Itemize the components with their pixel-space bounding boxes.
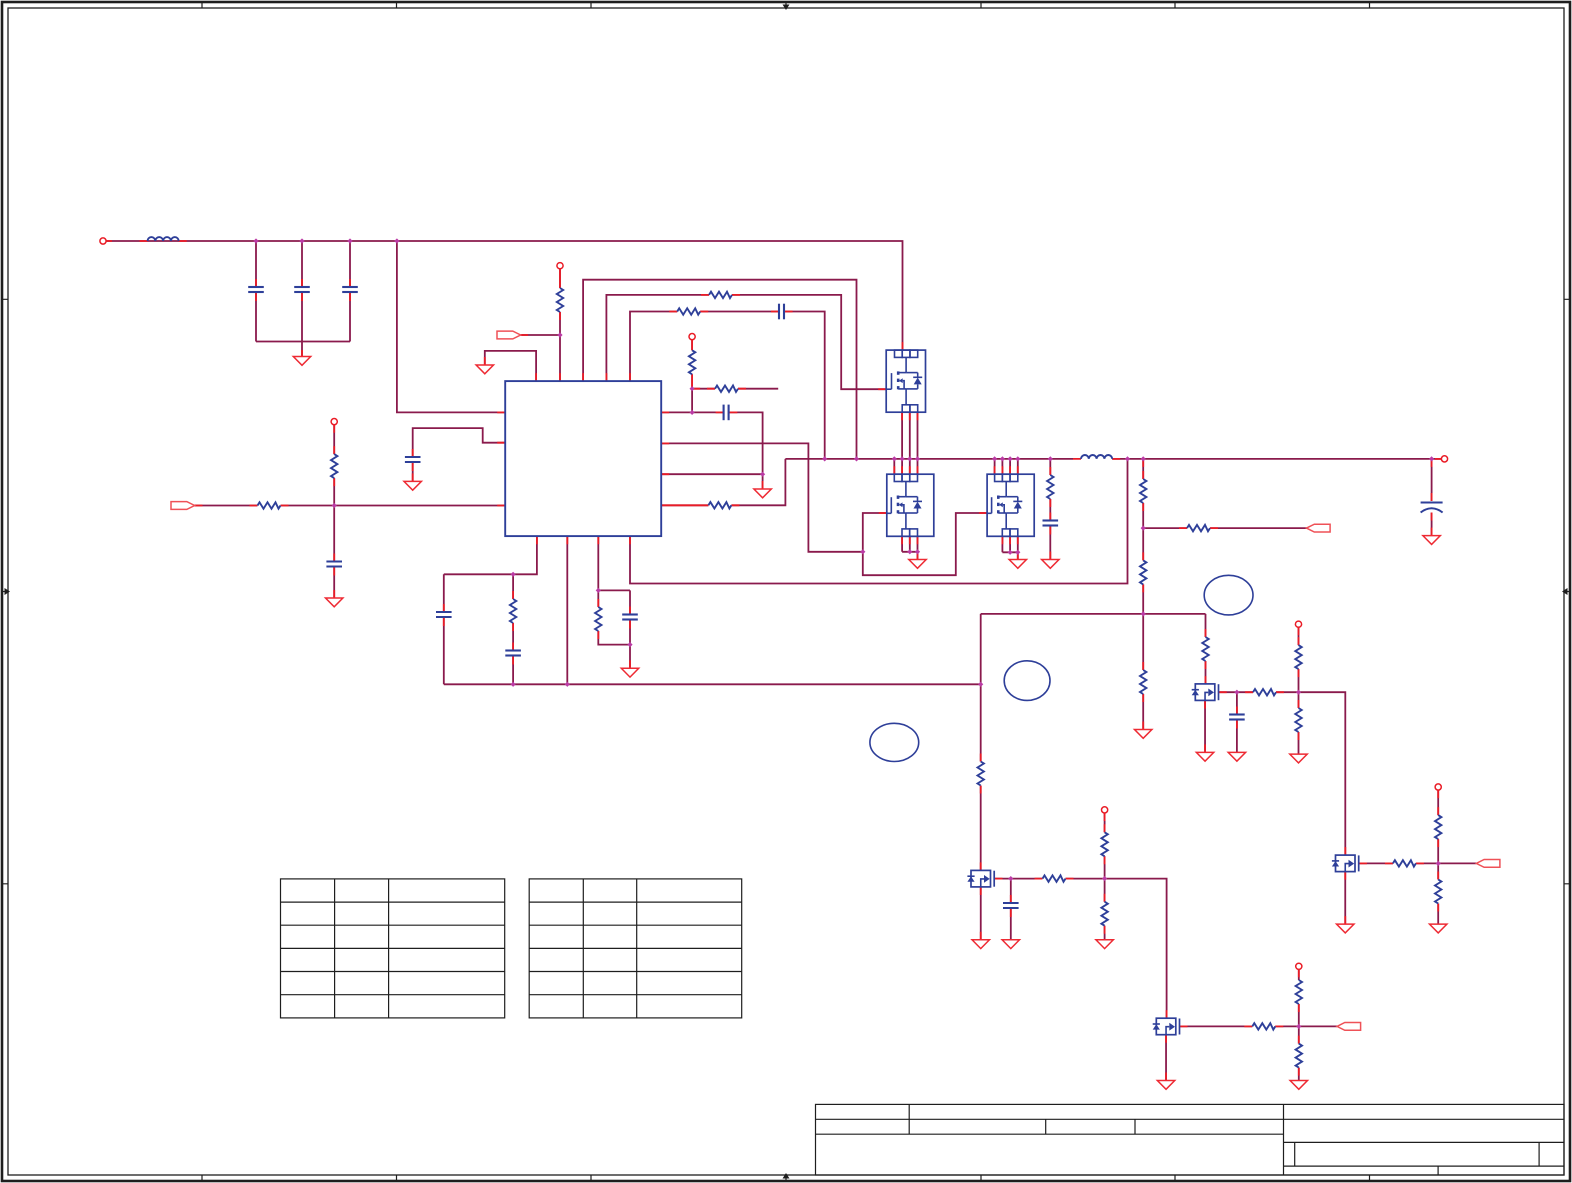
pin stubs IC left pin2 net (413, 443, 506, 471)
capacitor C8 at 443 (436, 612, 452, 617)
junction VCC node (332, 503, 337, 508)
MOSFET Q6 (1192, 684, 1219, 701)
resistor R9 at 513 (510, 599, 516, 623)
junction Q3 source join (1008, 550, 1021, 555)
frame centering arrow top (783, 2, 790, 10)
wire IC top pin4 to Q1 gate (606, 295, 886, 389)
pin stubs Q7 source (1344, 872, 1346, 925)
ground input caps (293, 357, 310, 366)
wire FB divider chain (1142, 459, 1144, 730)
wire IC right pin3 gnd (661, 474, 762, 489)
ground Q2 source (909, 560, 926, 569)
resistor R12 FB top (1140, 479, 1146, 503)
junction comp node 388 (690, 386, 695, 391)
junction SW bus Q2 pins (892, 456, 920, 461)
capacitor C9 at 513 (505, 651, 521, 656)
FET package Q1 box (886, 350, 925, 412)
capacitor C6 vcc (326, 562, 342, 567)
resistor R2 comp 294 (709, 292, 732, 298)
pin stubs Q4 source (980, 887, 982, 940)
wire IC bottom pin4 VOUT sense (630, 459, 1128, 584)
resistor R10 at 598 (595, 607, 601, 631)
pin stubs gnd stem C2 (301, 350, 303, 357)
junction Q4 gate (1008, 876, 1013, 881)
ground C5 (404, 481, 421, 490)
wire Q3 source pins join (1002, 536, 1017, 559)
pin stubs RC 513.1 (512, 591, 514, 665)
resistor R29 Q7 pulldown (1435, 880, 1441, 904)
FET Q3 inner (987, 474, 1023, 536)
pin stub IC pin VIN (497, 411, 505, 413)
junction Q6 gate (1234, 690, 1239, 695)
revision table 2 (529, 879, 742, 1018)
MOSFET Q5 (1153, 1018, 1180, 1034)
junction bus 855 (854, 456, 859, 461)
IC U1 (505, 381, 661, 536)
ground C14 (1228, 752, 1245, 761)
resistor R16 Q6 drain (1202, 637, 1208, 661)
wire IC right pin1 comp net (661, 412, 762, 474)
junction FB node (1141, 526, 1146, 531)
revision table 1 (281, 879, 505, 1018)
junction Q7 node (1436, 861, 1441, 866)
pin stubs Q2 top pins (894, 466, 917, 474)
pin stubs IC top pins 3,4,5 (583, 373, 630, 381)
junction VOUT 1143 (1141, 456, 1146, 461)
terminal Q6 pullup (1295, 621, 1301, 627)
capacitor C7 comp (724, 405, 729, 421)
resistor R27 Q7 gate (1393, 860, 1416, 866)
wire Q6 node to Q7 drain (1299, 692, 1346, 855)
wire IC right pin2 to lowside gates (661, 443, 863, 551)
MOSFET Q7 (1332, 855, 1359, 872)
wire output cap leads (1431, 459, 1433, 536)
resistor R23 Q5 pulldown (1296, 1044, 1302, 1068)
resistor R22 Q5 pullup (1296, 980, 1302, 1004)
junction mid node 613 (1141, 611, 1146, 616)
pin stubs IC pin1 gnd hook (485, 357, 536, 381)
wire input cap C2 leads (301, 241, 303, 342)
pin stubs output cap (1431, 459, 1433, 536)
wire IC bottom pin2 straight (566, 536, 568, 684)
junction gnd bus 980 (978, 682, 983, 687)
resistor R8 SW sense (708, 502, 731, 508)
junction SW bus snubber (1048, 456, 1053, 461)
pin stubs IC right pin2 (661, 442, 669, 444)
terminal comp (689, 334, 695, 340)
wire lowside gate Q2 branch (863, 513, 887, 552)
pin stubs Q4 gate cap (1010, 895, 1012, 917)
pin stubs Q2 source pins (902, 536, 917, 559)
capacitor C3 (342, 287, 358, 292)
pin stubs FB chain (1142, 459, 1144, 730)
wire Q4 node to Q5 drain (1105, 879, 1167, 1019)
pin stubs Q1 bottom pins (902, 412, 917, 420)
ground IC pin1 (476, 365, 493, 374)
FET package Q2 box (887, 474, 934, 536)
ground C6 (326, 598, 343, 607)
wire Q7 gate node (1359, 862, 1476, 864)
wire Q4 gate cap (1010, 879, 1012, 940)
FET Q1 inner (887, 350, 923, 412)
junction pin3 node 644 (627, 642, 632, 647)
junction VIN rail C3 (347, 238, 352, 243)
pin stubs Q5 gate node (1180, 1025, 1284, 1027)
terminal EN (557, 263, 563, 269)
port flag FB (1307, 524, 1331, 532)
resistor R17 Q4 drain (978, 762, 984, 786)
wire Q6 source to gnd (1204, 701, 1206, 753)
capacitor C1 (248, 287, 264, 292)
frame zone ticks right (1564, 299, 1570, 884)
resistor R24 Q6 gate (1253, 689, 1276, 695)
resistor R6 comp vertical (689, 350, 695, 374)
capacitor C10 at 630 (622, 615, 638, 620)
pin stubs Q7 drain (1344, 847, 1346, 855)
port flag Q7 out (1476, 860, 1500, 868)
port flag VCC (171, 502, 195, 510)
pin stubs cap 443.8 (443, 604, 445, 626)
pin stubs R and C on 311.5 (669, 311, 792, 313)
resistor R18 Q4 gate (1043, 875, 1066, 881)
junction VIN rail C1 (253, 238, 258, 243)
resistor R25 Q6 pullup (1295, 645, 1301, 669)
ellipse marker E2 (1004, 661, 1050, 701)
wire input cap C3 leads (349, 241, 351, 342)
junction EN node (557, 332, 562, 337)
wire Q1 drain pins to SW bus (894, 412, 917, 474)
pin stubs Q1 gate (878, 388, 886, 390)
junction Q5 node (1296, 1024, 1301, 1029)
wire comp R stub right (692, 388, 778, 390)
pin stubs Q4 gate and node (995, 878, 1074, 880)
ground R23 (1290, 1081, 1307, 1090)
wire Q6 gate node (1219, 691, 1299, 693)
ground pin3 RC (621, 668, 638, 677)
wire FB to port (1143, 527, 1306, 529)
frame zone ticks bottom (202, 1175, 1370, 1181)
junction Q6 node (1296, 690, 1301, 695)
frame zone ticks left (2, 299, 8, 884)
junction SW bus Q3 pins (992, 456, 1020, 461)
terminal J1 VIN (100, 238, 106, 244)
frame centering arrow bottom (783, 1173, 790, 1181)
junction bus 823 (822, 456, 827, 461)
frame zone ticks top (202, 2, 1370, 8)
resistor R11 snubber (1047, 475, 1053, 499)
wire cap C at 443.8 leads (443, 574, 445, 684)
resistor R21 Q5 gate (1252, 1023, 1275, 1029)
title block (816, 1104, 1565, 1175)
wire Q6 gate cap (1236, 692, 1238, 752)
wire RC chain at 513.1 (512, 574, 514, 684)
pin stubs Q3 top pins (995, 466, 1018, 474)
pin stubs comp chain (692, 340, 746, 389)
junction gnd bus 567 (565, 682, 570, 687)
terminal Q5 pullup (1296, 963, 1302, 969)
capacitor C11 snubber (1043, 521, 1059, 526)
pin stubs RC 598-630 (598, 599, 630, 668)
wire Q2 source pins join (902, 536, 917, 559)
pin stubs IC right pin3 (661, 474, 762, 489)
pin stubs L2 (1073, 458, 1120, 460)
pin stubs Q7 pullup chain (1437, 790, 1439, 911)
FET package Q3 box (987, 474, 1034, 536)
terminal Q4 pullup (1102, 807, 1108, 813)
pin stubs IC right pin1 net (661, 411, 737, 413)
pin stubs Q3 source pins (1002, 536, 1017, 559)
terminal VOUT (1441, 456, 1447, 462)
ground R26 (1290, 754, 1307, 763)
resistor R14 FB low (1140, 670, 1146, 694)
pin stubs Q7 gate node (1359, 862, 1424, 864)
wire IC right pin4 to SW riser (661, 459, 785, 505)
inductor L1 (148, 237, 179, 241)
wire VIN to IC pin VIN (397, 241, 505, 412)
resistor R7 comp horizontal (715, 386, 738, 392)
pin stubs input terminal and L1 (106, 240, 187, 242)
ground snubber (1042, 560, 1059, 569)
ground C13 (1002, 940, 1019, 949)
pin stubs Q5 drain (1166, 1010, 1168, 1018)
resistor R19 Q4 pullup (1101, 832, 1107, 856)
wire gnd bus 684 (444, 683, 981, 685)
resistor R28 Q7 pullup (1435, 815, 1441, 839)
wire IC bottom pin3 RC pair (598, 536, 630, 668)
resistor R4 vcc series (258, 502, 281, 508)
capacitor C4 boot (779, 304, 784, 320)
wire EN terminal chain (559, 269, 561, 381)
terminal VCC (331, 419, 337, 425)
pin stubs Q6 gate cap (1236, 707, 1238, 729)
FET Q2 inner (886, 474, 922, 536)
wire Q7 source to gnd (1344, 872, 1346, 925)
wire SW bus (785, 458, 1073, 460)
ground Q5 source (1157, 1081, 1174, 1090)
junction pin3 node 590 (596, 588, 601, 593)
wire VCC vertical chain (333, 425, 335, 598)
capacitor C14 Q6 gate (1229, 715, 1245, 720)
frame centering arrow left (2, 588, 10, 595)
wire VOUT rail (1112, 458, 1441, 460)
pin stubs Q5 pullup chain (1298, 969, 1300, 1075)
capacitor C12 output polarized (1421, 503, 1443, 513)
junction VOUT 1127 (1125, 456, 1130, 461)
junction Q2 source join (907, 549, 920, 554)
pin stubs Q6 gate node (1219, 691, 1284, 693)
wire input cap bottom bus (256, 342, 350, 357)
wire lowside gate Q3 branch (863, 513, 987, 575)
capacitor C13 Q4 gate (1003, 903, 1019, 908)
pin stubs input caps C1 C2 C3 (256, 279, 350, 301)
resistor R3 boot 311 (677, 308, 700, 314)
wire VIN rail (106, 241, 903, 350)
pin stubs snubber (1049, 467, 1051, 560)
ground FB chain (1135, 730, 1152, 739)
wire Q6 drain (1205, 661, 1207, 684)
capacitor C5 vcc bypass (405, 457, 421, 462)
capacitor C2 (294, 287, 310, 292)
frame centering arrow right (1562, 588, 1570, 595)
pin stubs C443 gnd (412, 473, 414, 481)
junction VIN rail C2 (299, 238, 304, 243)
wire IC top pin3 U-path (583, 280, 856, 459)
pin stubs output terminal (1435, 458, 1441, 460)
pin stubs VCC port and R (195, 505, 506, 507)
junction gnd node 474 (760, 472, 765, 477)
ground Q3 source (1009, 560, 1026, 569)
port flag Q5 out (1337, 1023, 1361, 1031)
wire Q3 top pins to SW bus (995, 459, 1018, 474)
wire snubber chain (1049, 459, 1051, 560)
wire C bottom to gnd (pin2 net) (412, 463, 414, 481)
pin stubs R 294.9 (701, 294, 740, 296)
wire VCC port line to IC pin3 (195, 505, 506, 507)
junction lowside gate node (860, 549, 865, 554)
junction VIN rail IC drop (394, 238, 399, 243)
pin stubs Q2 Q3 gates (879, 512, 987, 514)
wire Q4 gate node (995, 878, 1105, 880)
wire EN flag to junction (521, 334, 560, 336)
wire input cap C1 leads (255, 241, 257, 342)
wire Q6 pullup chain (1298, 627, 1300, 754)
resistor R1 EN pullup (557, 288, 563, 312)
pin stubs IC bottom pins (537, 536, 630, 544)
ground Q7 source (1337, 924, 1354, 933)
pin stubs EN chain (559, 269, 561, 381)
wire IC left pin2 net (413, 428, 506, 457)
junction VOUT 1431 (1429, 456, 1434, 461)
wire Q5 pullup chain (1298, 969, 1300, 1080)
terminal Q7 pullup (1435, 784, 1441, 790)
resistor R13 FB mid (1140, 560, 1146, 584)
ground output cap (1423, 536, 1440, 545)
wire comp terminal chain (691, 340, 693, 413)
wire Q4 drain chain (980, 684, 982, 870)
ground IC right pin3 (754, 489, 771, 498)
pin stubs Q4 pullup chain (1104, 813, 1106, 934)
pin stubs FB port R (1179, 527, 1218, 529)
pin stubs Q6 drain chain (1205, 629, 1207, 684)
ellipse marker E1 (870, 723, 919, 761)
junction pin1 net 513 (510, 572, 515, 577)
junction gnd bus 513 (510, 682, 515, 687)
resistor R26 Q6 pulldown (1295, 708, 1301, 732)
pin stubs Q5 source (1165, 1035, 1167, 1081)
port flag EN (497, 331, 521, 339)
wire Q4 pullup chain (1104, 813, 1106, 940)
wire IC bottom pin1 net (444, 536, 537, 574)
pin stubs EN flag (521, 334, 528, 336)
ground R20 (1096, 940, 1113, 949)
MOSFET Q4 (967, 870, 994, 887)
wire IC pin1 hook to gnd (485, 351, 536, 381)
ground Q6 source (1196, 752, 1213, 761)
wire Q5 gate node (1180, 1025, 1338, 1027)
pin stubs VCC chain (333, 425, 335, 598)
ellipse marker E3 (1204, 575, 1253, 615)
resistor R5 vcc chain (331, 454, 337, 478)
inductor L2 (1081, 455, 1112, 459)
resistor R20 Q4 pulldown (1101, 902, 1107, 926)
junction Q4 node 1104 (1102, 876, 1107, 881)
wire IC top pin5 bootstrap (630, 312, 825, 459)
wire Q4 source to gnd (980, 887, 982, 940)
resistor R15 FB port series (1187, 525, 1210, 531)
ground Q4 source (972, 940, 989, 949)
pin stubs Q4 drain chain (980, 754, 982, 871)
wire Q7 pullup chain (1437, 790, 1439, 924)
ground R29 (1430, 924, 1447, 933)
pin stubs Q6 pullup chain (1298, 627, 1300, 740)
wire Q5 source to gnd (1165, 1035, 1167, 1081)
pin stubs IC right pin4 SW (661, 504, 739, 506)
pin stubs Q1 drain top (902, 342, 904, 350)
pin stubs Q6 source (1204, 701, 1206, 753)
junction comp node 412 (690, 410, 695, 415)
wire mid distribution 613.9 (981, 614, 1206, 684)
